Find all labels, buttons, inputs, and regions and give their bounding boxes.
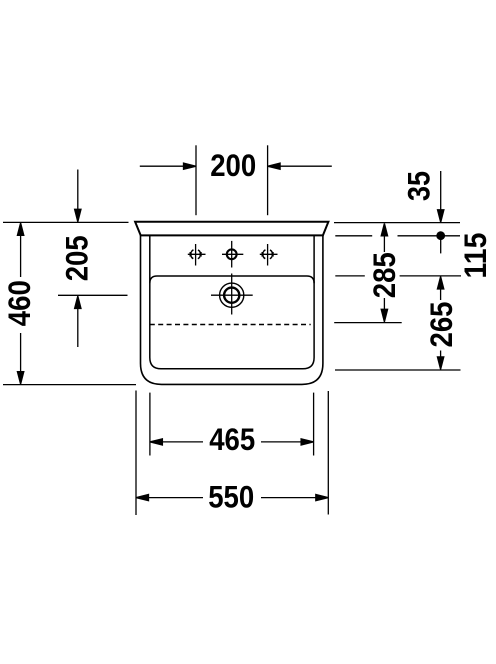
fixing point dot — [436, 231, 445, 240]
svg-text:465: 465 — [209, 421, 255, 457]
svg-text:265: 265 — [423, 302, 459, 348]
basin front top edge — [150, 276, 314, 283]
dim 285 bottom arrow — [381, 309, 387, 322]
dim 550 left arrow — [136, 495, 149, 501]
svg-text:115: 115 — [457, 233, 493, 279]
water level extension line right — [334, 322, 402, 324]
dim 465 right arrow — [301, 439, 314, 445]
svg-text:550: 550 — [208, 479, 254, 515]
basin edge extension line right — [335, 275, 365, 277]
dim 265 bottom arrow — [437, 357, 443, 370]
rim top extension line left — [3, 221, 129, 223]
water level dashed line — [150, 324, 311, 326]
dim 35 arrow — [440, 171, 442, 211]
fixing point stub — [440, 240, 442, 254]
right fixing hole ticks — [262, 252, 264, 257]
dim 265 top arrow — [437, 277, 443, 290]
basin inner wall — [150, 235, 314, 368]
dim 465 extension line right — [313, 393, 315, 456]
dim 550 extension line left — [135, 391, 137, 516]
dim 460 top arrow — [17, 223, 23, 236]
left fixing hole crosshair — [188, 253, 206, 255]
dim 200 right arrow — [280, 165, 332, 167]
dim 205 bottom arrow — [77, 308, 79, 348]
overflow hole crosshair — [211, 294, 253, 296]
dim 550 right arrow — [316, 495, 329, 501]
svg-text:460: 460 — [1, 280, 37, 326]
right fixing hole crosshair — [260, 253, 278, 255]
svg-text:285: 285 — [366, 252, 402, 298]
center tap hole crosshair — [222, 253, 243, 255]
left fixing hole ticks — [190, 252, 192, 257]
dim 205 lower extension line — [58, 294, 128, 296]
dim 460 bottom arrow — [17, 372, 23, 385]
dim 200 extension line left — [195, 145, 197, 215]
overflow hole inner circle — [224, 288, 239, 303]
dim 200 left arrow — [140, 165, 184, 167]
rim bottom extension line right — [335, 235, 372, 237]
dim 285 top arrow — [381, 223, 387, 236]
bottom extension line left — [3, 384, 136, 386]
dim 465 extension line left — [149, 393, 151, 456]
washbasin outer body — [141, 235, 323, 384]
dim 550 extension line right — [327, 391, 329, 515]
svg-text:200: 200 — [210, 147, 256, 183]
dim 265 shaft — [440, 288, 442, 300]
dim 465 left arrow — [150, 439, 163, 445]
right fixing hole dashed circle — [263, 249, 273, 259]
dim 460 shaft — [20, 234, 22, 277]
svg-text:35: 35 — [401, 171, 437, 201]
left fixing hole dashed circle — [191, 249, 201, 259]
overflow hole outer circle — [220, 283, 244, 307]
dim 205 top arrow — [77, 170, 79, 211]
rim top extension line right — [334, 222, 460, 224]
svg-text:205: 205 — [59, 235, 95, 281]
dim 285 shaft — [383, 235, 385, 253]
center tap hole — [227, 249, 237, 259]
washbasin rim (front view top edge) — [135, 222, 328, 236]
dim 200 extension line right — [267, 145, 269, 215]
basin bottom extension line right — [335, 369, 461, 371]
